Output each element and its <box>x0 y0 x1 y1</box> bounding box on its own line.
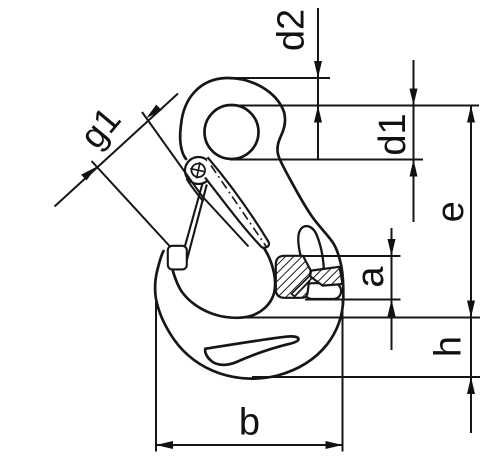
d2 top boundary tick <box>230 77 330 79</box>
inner groove sliver <box>205 336 298 364</box>
a top boundary line <box>301 255 401 257</box>
latch pivot pin <box>188 160 208 180</box>
h bottom boundary line <box>252 376 480 378</box>
b arrows <box>156 441 173 449</box>
e arrows <box>467 106 475 123</box>
h dimension line <box>470 318 472 434</box>
e bottom / h top boundary line <box>228 317 480 319</box>
e dimension line <box>470 106 472 318</box>
latch blade centerline (dash-dot) <box>211 166 267 248</box>
h bottom arrow <box>467 377 475 394</box>
a bottom boundary line <box>305 299 401 301</box>
latch spring arm (left) <box>182 184 207 262</box>
d1 top boundary line <box>226 105 479 107</box>
d2 arrows <box>314 61 322 78</box>
svg-text:a: a <box>350 266 392 288</box>
latch foot <box>168 246 187 270</box>
g1 arrows <box>146 105 162 119</box>
d2 dimension line <box>317 8 319 159</box>
svg-text:b: b <box>239 402 260 444</box>
hook nose finger <box>298 226 323 270</box>
d1 dimension line <box>413 60 415 222</box>
hatched latch-section band <box>310 267 342 286</box>
hook eye inner hole <box>205 105 259 159</box>
latch head <box>185 157 212 184</box>
d1 arrows <box>410 89 418 106</box>
g1 extension line to saddle <box>92 161 171 247</box>
hook body outer contour <box>155 78 343 379</box>
svg-text:d2: d2 <box>271 9 313 51</box>
g1 dimension line <box>55 94 179 207</box>
svg-text:h: h <box>428 336 470 357</box>
b left extension line <box>155 302 157 452</box>
b right extension line <box>342 300 344 452</box>
hook bowl inner contour <box>171 248 275 318</box>
latch seat gap sliver <box>291 275 311 296</box>
g1 extension line to latch tip <box>142 112 249 247</box>
latch head tail <box>187 179 204 202</box>
arrowheads <box>81 61 475 449</box>
svg-text:e: e <box>430 201 472 222</box>
a dimension line <box>391 228 393 350</box>
latch blade <box>205 157 269 248</box>
hatched nose cross-section blob <box>276 256 311 298</box>
d1 bottom boundary line <box>230 159 423 161</box>
svg-text:d1: d1 <box>372 113 414 155</box>
b dimension line <box>156 444 343 446</box>
nose seat stadium <box>305 283 342 299</box>
a arrows <box>388 239 396 256</box>
